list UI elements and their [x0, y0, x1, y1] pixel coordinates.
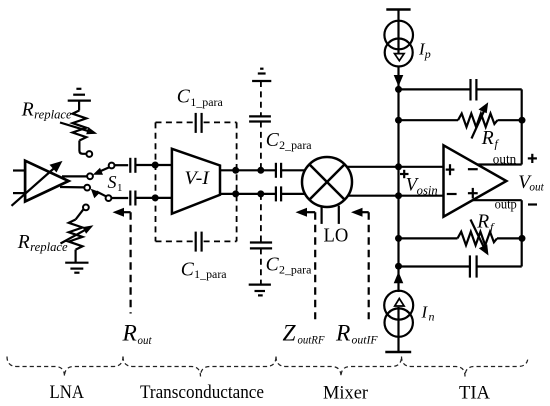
svg-text:R: R [481, 128, 494, 149]
node: rail / bottom Rf [395, 235, 402, 242]
brace Transconductance [123, 357, 276, 377]
node: rail / top Rf [395, 117, 402, 124]
label R_out [122, 321, 153, 347]
capacitor C2_para (top) with dashed leads [249, 81, 271, 170]
capacitor C1_para (bottom) [196, 232, 202, 252]
label LO [324, 224, 349, 246]
series capacitor to mixer (bottom) [276, 186, 305, 201]
svg-text:S: S [108, 172, 117, 192]
svg-text:Z: Z [283, 320, 297, 346]
label Rf (top) [481, 128, 500, 151]
terminal circle: LNA output bottom [84, 185, 90, 191]
node (top input of V-I) [152, 162, 159, 169]
label V_osin with + [400, 170, 409, 178]
node: rail / op-amp - input [395, 192, 402, 199]
wire: mixer output (bottom) [348, 195, 399, 197]
feedback capacitor (top) [399, 79, 522, 101]
node: rail / op-amp + input (V_osin) [395, 163, 402, 170]
current source Ip [384, 10, 413, 90]
label C1_para (top) [177, 87, 223, 110]
switch S1 top lever [93, 163, 115, 175]
node (Ip output) [395, 86, 402, 93]
svg-text:V-I: V-I [185, 168, 211, 189]
TIA right rail (top) [521, 89, 523, 164]
capacitor C2_para (bottom) with dashed leads [250, 194, 272, 285]
label outp [495, 196, 518, 211]
wire: op-amp + input [399, 166, 444, 168]
op-amp U1 [444, 145, 507, 216]
svg-text:C: C [266, 130, 280, 151]
svg-text:R: R [476, 212, 489, 233]
op-amp input polarity symbols [446, 164, 478, 198]
svg-text:out: out [138, 333, 153, 347]
TIA left rail [397, 89, 399, 266]
wire: LNA input stub (bottom) [13, 192, 25, 194]
svg-text:replace: replace [30, 240, 68, 254]
svg-text:1_para: 1_para [194, 269, 226, 281]
capacitor C1_para (top) [196, 113, 202, 133]
supply bar (top) [386, 8, 410, 11]
label R_replace (top) [21, 100, 72, 122]
Z_outRF pointer arrow + dashed lead [296, 208, 316, 320]
wire: op-amp output outp [473, 199, 522, 201]
wire: LNA output (top) [62, 175, 87, 177]
wire: mixer output (top) [347, 166, 399, 168]
pin: LO left [321, 207, 323, 224]
label In [421, 303, 435, 324]
current source In [384, 266, 413, 352]
svg-text:1: 1 [117, 182, 123, 194]
label V-I [185, 168, 211, 189]
brace LNA [7, 357, 123, 377]
label Z_outRF [283, 320, 326, 346]
svg-text:2_para: 2_para [279, 264, 311, 276]
label outn [493, 151, 517, 166]
svg-text:LNA: LNA [50, 382, 85, 403]
feedback capacitor (bottom) [399, 255, 522, 277]
label S1 [108, 172, 123, 194]
switch S1 bottom lever [91, 189, 112, 201]
mixer circle with X [302, 157, 352, 207]
resistor R_replace (top, variable) [60, 110, 97, 153]
terminal circle: LNA output top [87, 173, 93, 179]
svg-text:outRF: outRF [298, 333, 326, 347]
svg-text:LO: LO [324, 224, 349, 246]
label Ip [418, 39, 431, 61]
label C2_para (bottom) [266, 254, 312, 276]
svg-text:C: C [181, 259, 195, 280]
series capacitor (top, after S1) [115, 158, 173, 173]
svg-text:R: R [21, 100, 34, 121]
ground (below bottom C2_para) [249, 285, 271, 296]
svg-text:replace: replace [34, 108, 72, 122]
gain arrow through LNA [12, 161, 63, 206]
svg-text:n: n [429, 310, 435, 324]
dashed parasitic box [156, 122, 237, 241]
svg-text:R: R [17, 232, 30, 253]
brace TIA [402, 357, 529, 377]
svg-text:C: C [177, 87, 191, 108]
node: rail / bottom cap [395, 263, 402, 270]
node: bottom output at C2 tap [257, 190, 264, 197]
ground (inverted, above top R_replace) [68, 89, 91, 111]
brace Mixer [276, 357, 402, 377]
node (top Rf right) [519, 117, 526, 124]
svg-text:outn: outn [493, 151, 517, 166]
svg-text:R: R [122, 321, 137, 347]
svg-text:Mixer: Mixer [323, 383, 369, 404]
resistor R_replace (bottom, variable) [61, 205, 94, 263]
label Rf (bottom) [476, 212, 495, 235]
svg-text:p: p [424, 47, 431, 61]
feedback resistor Rf (bottom, variable) [399, 220, 522, 256]
svg-text:2_para: 2_para [279, 140, 311, 152]
R_outIF pointer arrow + dashed lead [351, 208, 369, 320]
node: top output at C2 tap [257, 167, 264, 174]
svg-text:out: out [529, 182, 544, 194]
ground (inverted, above top C2_para) [252, 69, 271, 81]
svg-text:1_para: 1_para [190, 97, 222, 109]
series capacitor (bottom, after S1) [111, 191, 172, 206]
svg-text:Transconductance: Transconductance [140, 382, 264, 403]
op-amp LNA triangle [25, 161, 69, 202]
node: top output at box edge [232, 167, 239, 174]
feedback resistor Rf (top, variable) [399, 102, 522, 138]
svg-text:outIF: outIF [352, 333, 379, 347]
wire: op-amp - input [399, 195, 444, 197]
label R_outIF [335, 320, 378, 346]
label R_replace (bottom) [17, 232, 68, 254]
node (bottom Rf right) [519, 235, 526, 242]
wire: V-I output (top) [220, 169, 276, 171]
label C2_para (top) [266, 130, 312, 152]
TIA right rail (bottom) [521, 200, 523, 266]
series capacitor to mixer (top) [276, 163, 305, 178]
ground bar (below In) [385, 351, 411, 354]
pin: LO right [338, 206, 340, 224]
node: bottom output at box edge [232, 190, 239, 197]
ground (below bottom R_replace) [65, 263, 88, 273]
wire: op-amp output outn [477, 163, 521, 165]
svg-text:TIA: TIA [459, 383, 490, 404]
svg-text:outp: outp [495, 196, 518, 211]
terminal (top R_replace) [86, 151, 92, 157]
svg-text:osin: osin [417, 183, 438, 197]
svg-text:R: R [335, 320, 350, 346]
wire: LNA output (bottom) [60, 186, 85, 189]
V-I transconductor block [172, 149, 220, 214]
wire: V-I output (bottom) [220, 193, 276, 195]
label V_out with +/- [528, 154, 537, 205]
R_out pointer arrow + dashed lead [113, 208, 131, 314]
label C1_para (bottom) [181, 259, 227, 281]
svg-text:C: C [266, 254, 280, 275]
node (bottom input of V-I) [152, 194, 159, 201]
wire: LNA input stub (top) [13, 169, 25, 171]
